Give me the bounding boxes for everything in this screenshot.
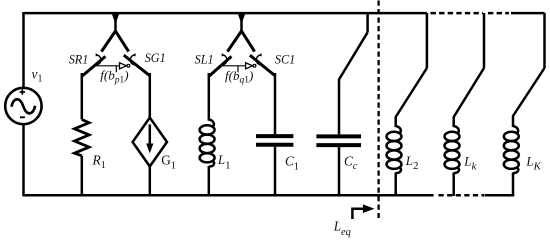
wire: V-leg to SG1 fixed contact: [116, 31, 129, 52]
capacitor Cc plates: [316, 136, 361, 145]
inductor L1 coil: [200, 120, 215, 167]
switch SC1 throw arc arrow: [256, 55, 262, 65]
resistor R1 zigzag: [75, 120, 90, 156]
svg-text:Cc: Cc: [344, 154, 358, 173]
wire: L2 top stub from bus: [426, 13, 429, 68]
wire: top bus dashed L2 to Lk: [431, 12, 484, 15]
inductor L2 coil: [387, 126, 402, 173]
wire: Lk slant: [454, 68, 484, 117]
control link f(bp1) buffer triangle: [120, 63, 127, 69]
wire: LK branch lower: [512, 173, 515, 197]
wire: LK slant: [513, 68, 545, 116]
wire: LK top stub from bus: [543, 13, 546, 68]
wire: top bus solid into LK corner: [511, 12, 545, 15]
control link f(bp1) line: [96, 65, 120, 67]
wire: L1 branch upper: [208, 73, 211, 121]
wire: bottom bus solid Lk to LK corner: [485, 194, 514, 197]
svg-text:v1: v1: [32, 67, 43, 85]
wire: left vertical above source: [22, 12, 25, 88]
control link f(bq1) label leader: [237, 66, 239, 72]
switch SC1 lever: [250, 55, 275, 75]
switch SG1 throw arc arrow: [130, 55, 136, 65]
control link f(bq1) line: [222, 65, 246, 67]
wire: top bus solid from source to L2 corner: [24, 12, 427, 15]
svg-text:SC1: SC1: [275, 52, 295, 66]
wire: Cc branch lower: [338, 147, 341, 196]
svg-text:L1: L1: [217, 152, 231, 171]
wire: left vertical below source: [22, 124, 25, 196]
control link f(bp1) bubble: [127, 64, 130, 67]
wire: L2 branch lower: [394, 173, 397, 197]
svg-text:C1: C1: [285, 153, 299, 172]
wire: Lk branch lower: [452, 173, 455, 197]
wire: bottom bus dashed L2 to Lk: [439, 194, 485, 197]
wire: L1 branch lower: [208, 166, 211, 196]
wire: L2 branch upper: [394, 117, 397, 128]
wire: Cc branch upper: [338, 79, 341, 134]
voltage source sine wave: [12, 99, 36, 113]
control link f(bq1) bubble: [253, 64, 256, 67]
wire: L2 slant: [396, 68, 427, 117]
wire: LK branch upper: [512, 116, 515, 128]
svg-text:SG1: SG1: [145, 51, 166, 65]
svg-text:L2: L2: [405, 154, 419, 172]
wire: R1 branch upper: [81, 73, 84, 120]
voltage source plus sign: [20, 89, 25, 94]
dependent source G1 diamond: [133, 118, 167, 167]
svg-text:SL1: SL1: [195, 52, 214, 66]
svg-text:Lk: Lk: [463, 154, 477, 172]
switch SL1 lever: [209, 56, 232, 76]
wire: V-leg to SC1 fixed contact: [242, 31, 255, 52]
wire: Lk branch upper: [452, 117, 455, 128]
voltage source minus sign: [20, 116, 25, 118]
control link f(bq1) buffer triangle: [246, 63, 253, 69]
node P1: arrow stub into switch pair 1: [114, 14, 117, 31]
wire: C1 branch upper: [274, 73, 277, 134]
annotation: Leq elbow arrow: [352, 209, 363, 219]
switch SR1 throw arc arrow: [95, 55, 101, 65]
voltage source v1 circle: [5, 88, 41, 124]
svg-text:LK: LK: [525, 154, 541, 172]
wire: C1 branch lower: [274, 147, 277, 196]
capacitor C1 plates: [256, 136, 293, 145]
control link f(bp1) label leader: [115, 66, 117, 72]
wire: Cc slant: [339, 32, 368, 79]
switch SG1 lever: [124, 55, 150, 75]
boundary: dashed separator line: [377, 1, 379, 219]
node Q1: arrow stub into switch pair 2: [240, 14, 243, 31]
svg-text:f(bq1): f(bq1): [225, 68, 253, 86]
dependent source G1 arrow: [149, 124, 152, 146]
wire: G1 branch lower: [149, 166, 152, 196]
switch SR1 lever: [82, 56, 106, 76]
switch SL1 throw arc arrow: [221, 55, 227, 65]
wire: V-leg to SL1 fixed contact: [227, 31, 241, 52]
wire: Lk top stub from bus: [483, 13, 486, 68]
inductor LK coil: [504, 126, 519, 173]
wire: V-leg to SR1 fixed contact: [101, 31, 115, 52]
svg-text:f(bp1): f(bp1): [100, 68, 128, 86]
svg-text:Leq: Leq: [333, 218, 351, 237]
svg-text:G1: G1: [161, 153, 176, 172]
wire: top bus dashed Lk to LK: [488, 12, 509, 15]
wire: R1 branch lower: [81, 156, 84, 196]
wire: G1 branch upper: [149, 73, 152, 118]
inductor Lk coil: [445, 126, 460, 173]
wire: bottom bus solid: [24, 194, 434, 197]
svg-text:R1: R1: [92, 153, 106, 171]
wire: Cc top stub from bus: [366, 13, 369, 32]
svg-text:SR1: SR1: [69, 52, 89, 66]
